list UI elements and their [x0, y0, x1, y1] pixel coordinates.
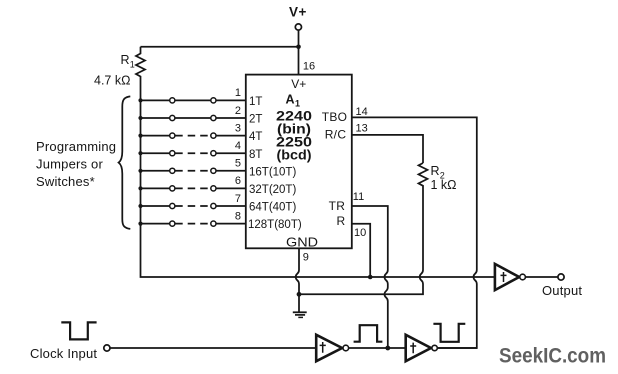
svg-text:Programming: Programming	[36, 139, 116, 154]
svg-text:TBO: TBO	[322, 110, 348, 124]
right-side pin wiring	[299, 106, 477, 348]
wire row 3 bus to left jumper circle	[141, 135, 170, 137]
inverter U3	[406, 335, 431, 361]
node jumper row 7 junction	[138, 204, 142, 208]
svg-text:14: 14	[356, 106, 368, 118]
wire row 4 bus to left jumper circle	[141, 152, 170, 154]
jumper row 6 left circle	[170, 186, 175, 191]
jumper row 3 right circle	[211, 133, 216, 138]
wire TR pin 11 to trigger node	[352, 206, 388, 348]
svg-text:R: R	[121, 53, 130, 67]
node trigger junction	[385, 346, 390, 351]
svg-text:SeekIC.com: SeekIC.com	[499, 344, 606, 368]
jumper row 6 right circle	[211, 186, 216, 191]
node jumper row 8 junction	[138, 222, 142, 226]
jumper row 5 left circle	[170, 168, 175, 173]
label R1	[121, 53, 135, 70]
svg-text:2: 2	[235, 105, 241, 117]
svg-text:13: 13	[356, 122, 368, 134]
wire R2 to ground bus	[299, 189, 423, 295]
jumper row 8 right circle	[211, 221, 216, 226]
jumper row 7 left circle	[170, 203, 175, 208]
wire row 1 bus to left jumper circle	[141, 99, 170, 101]
wire jumper common bus	[141, 100, 495, 277]
wire U2 output to U3 input	[349, 347, 407, 349]
label R2	[431, 164, 445, 180]
wire row 8 bus to left jumper circle	[141, 223, 170, 225]
wire row 4 to pin 4	[216, 152, 246, 154]
wire row 8 to pin 8	[216, 223, 246, 225]
wire TBO pin 14 to inverter U3 output	[352, 117, 477, 348]
label programming jumpers	[36, 139, 116, 189]
svg-text:TR: TR	[329, 199, 346, 213]
svg-text:5: 5	[235, 158, 241, 170]
ground, clock chain and output stage	[30, 248, 606, 367]
wire row 3 to pin 3	[216, 135, 246, 137]
jumper row 7 right circle	[211, 203, 216, 208]
inverter U2	[316, 335, 342, 361]
svg-text:128T(80T): 128T(80T)	[248, 219, 302, 231]
svg-text:16: 16	[303, 61, 315, 73]
wire V+ terminal to pin 16	[298, 30, 300, 74]
node V+ junction	[296, 45, 301, 50]
wire clock input to inverter U2	[110, 347, 317, 349]
svg-text:4.7 kΩ: 4.7 kΩ	[94, 74, 130, 88]
node R pin 10 to output bus junction	[368, 275, 373, 280]
svg-text:(bcd): (bcd)	[277, 148, 312, 163]
wire buffer output to terminal	[526, 276, 558, 278]
jumper row 1 left circle	[170, 98, 175, 103]
node jumper row 6 junction	[138, 186, 142, 190]
svg-text:1 kΩ: 1 kΩ	[431, 178, 457, 192]
programming jumper rows 1-8	[138, 87, 245, 226]
svg-text:1: 1	[295, 99, 300, 109]
wire row 3 jumper middle segment	[175, 135, 210, 137]
inverter U2 symbol	[320, 342, 326, 353]
wire row 1 to pin 1	[216, 99, 246, 101]
wire row 6 jumper middle segment	[175, 187, 210, 189]
wire GND pin 9 to ground	[296, 248, 299, 312]
svg-text:1: 1	[235, 87, 241, 99]
brace programming jumpers	[119, 96, 131, 229]
waveform TBO pulse	[433, 324, 465, 342]
IC U1 box and labels	[246, 61, 352, 250]
svg-text:R: R	[337, 214, 346, 228]
svg-text:R/C: R/C	[325, 128, 347, 142]
wire row 7 to pin 7	[216, 205, 246, 207]
svg-text:8T: 8T	[249, 149, 262, 161]
wire row 1 jumper middle segment	[175, 99, 210, 101]
resistor R1	[136, 47, 145, 101]
wire row 5 to pin 5	[216, 170, 246, 172]
wire row 2 to pin 2	[216, 117, 246, 119]
inverter U2 output bubble	[343, 345, 349, 351]
inverter U3 output bubble	[432, 345, 437, 350]
svg-text:V+: V+	[289, 5, 307, 20]
svg-text:R: R	[431, 164, 440, 178]
node ground bus junction	[297, 292, 302, 297]
clock input terminal	[104, 345, 110, 351]
wire row 6 to pin 6	[216, 187, 246, 189]
svg-text:1: 1	[130, 60, 135, 70]
jumper row 5 right circle	[211, 168, 216, 173]
wire row 5 bus to left jumper circle	[141, 170, 170, 172]
node jumper row 3 junction	[138, 134, 142, 138]
node jumper row 5 junction	[138, 169, 142, 173]
ground	[293, 312, 307, 317]
svg-text:Switches*: Switches*	[36, 174, 95, 189]
wire row 5 jumper middle segment	[175, 170, 210, 172]
resistor R2	[419, 163, 428, 189]
svg-text:3: 3	[235, 122, 241, 134]
inverter U3 symbol	[410, 343, 416, 354]
wire R pin 10 to output bus	[352, 224, 370, 277]
svg-text:4: 4	[235, 140, 241, 152]
svg-text:1T: 1T	[249, 96, 262, 108]
label U1 A1	[286, 93, 301, 109]
wire row 7 bus to left jumper circle	[141, 205, 170, 207]
jumper row 2 left circle	[170, 115, 175, 120]
wire row 2 jumper middle segment	[175, 117, 210, 119]
output terminal	[558, 274, 564, 280]
node jumper row 2 junction	[138, 116, 142, 120]
jumper row 8 left circle	[170, 221, 175, 226]
svg-text:GND: GND	[286, 235, 318, 249]
waveform trigger pulse	[354, 325, 383, 342]
svg-text:64T(40T): 64T(40T)	[249, 202, 296, 214]
IC U1 2240/2250 box	[246, 75, 352, 249]
buffer U4 output bubble	[520, 274, 526, 280]
node jumper row 4 junction	[138, 151, 142, 155]
svg-text:Jumpers or: Jumpers or	[36, 157, 103, 172]
node jumper row 1 junction	[138, 98, 142, 102]
wire row 8 jumper middle segment	[175, 223, 210, 225]
jumper row 1 right circle	[211, 98, 216, 103]
svg-text:2T: 2T	[249, 114, 262, 126]
svg-text:Output: Output	[542, 283, 582, 298]
jumper row 3 left circle	[170, 133, 175, 138]
jumper row 4 right circle	[211, 151, 216, 156]
svg-text:A: A	[286, 93, 295, 107]
svg-text:V+: V+	[291, 77, 306, 91]
wire U3 output to TBO line	[437, 347, 477, 349]
svg-text:10: 10	[354, 227, 366, 239]
V+ terminal	[295, 24, 301, 30]
buffer U4	[495, 264, 519, 290]
waveform clock input pulse	[61, 322, 96, 339]
wire V+ to R1	[141, 46, 299, 48]
svg-text:7: 7	[235, 193, 241, 205]
svg-text:4T: 4T	[249, 131, 262, 143]
svg-text:16T(10T): 16T(10T)	[249, 166, 296, 178]
jumper row 4 left circle	[170, 151, 175, 156]
wire row 2 bus to left jumper circle	[141, 117, 170, 119]
wire R/C pin 13 to R2	[352, 135, 423, 163]
svg-text:8: 8	[235, 210, 241, 222]
jumper row 2 right circle	[211, 115, 216, 120]
buffer U4 symbol	[501, 272, 507, 282]
svg-text:11: 11	[353, 191, 364, 203]
wire row 6 bus to left jumper circle	[141, 187, 170, 189]
wire row 7 jumper middle segment	[175, 205, 210, 207]
svg-text:Clock Input: Clock Input	[30, 346, 97, 361]
svg-text:6: 6	[235, 175, 241, 187]
svg-text:32T(20T): 32T(20T)	[249, 184, 296, 196]
svg-text:9: 9	[303, 252, 309, 264]
wire row 4 jumper middle segment	[175, 152, 210, 154]
